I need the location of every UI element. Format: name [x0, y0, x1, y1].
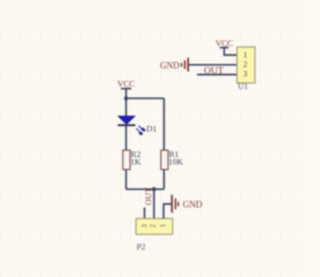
svg-text:1: 1: [159, 223, 167, 227]
connector U1: [237, 47, 255, 83]
svg-text:OUT: OUT: [143, 187, 153, 205]
wire bottom horizontal: [126, 188, 164, 190]
wire top horizontal: [126, 97, 164, 99]
LED D1: [118, 116, 146, 136]
svg-text:GND: GND: [160, 60, 180, 70]
power VCC (left): [117, 78, 135, 98]
wire LED cathode to R2: [125, 125, 127, 150]
power ground (top): [160, 58, 188, 72]
connector P2 pin 3 stub: [144, 208, 146, 220]
node junction bottom: [152, 187, 156, 191]
wire to LED anode: [125, 98, 127, 116]
svg-text:P2: P2: [137, 242, 146, 252]
connector P2: [136, 219, 173, 235]
resistor R1: [161, 150, 168, 169]
svg-text:3: 3: [243, 69, 247, 78]
svg-text:VCC: VCC: [215, 38, 233, 48]
wire P2 pin1 to ground: [164, 204, 171, 219]
wire R1 bottom: [163, 170, 165, 190]
svg-text:D1: D1: [146, 124, 156, 134]
svg-text:3: 3: [140, 224, 148, 228]
power VCC (right): [215, 38, 237, 55]
svg-text:GND: GND: [183, 199, 203, 209]
svg-text:VCC: VCC: [117, 78, 135, 88]
svg-text:2: 2: [149, 224, 157, 228]
svg-text:2: 2: [243, 60, 247, 69]
wire to R1 top: [163, 98, 165, 150]
resistor R2: [123, 150, 130, 169]
svg-text:U1: U1: [238, 81, 248, 91]
svg-text:1: 1: [243, 51, 247, 60]
power ground (bottom): [172, 195, 203, 213]
svg-text:1K: 1K: [130, 157, 141, 167]
svg-text:10K: 10K: [168, 157, 184, 167]
wire junction to P2 pin 2: [153, 189, 155, 218]
node junction top: [124, 96, 128, 100]
wire R2 bottom: [125, 170, 127, 190]
wire GND to U1 pin2: [189, 64, 237, 66]
wire OUT to U1 pin3: [197, 74, 237, 76]
